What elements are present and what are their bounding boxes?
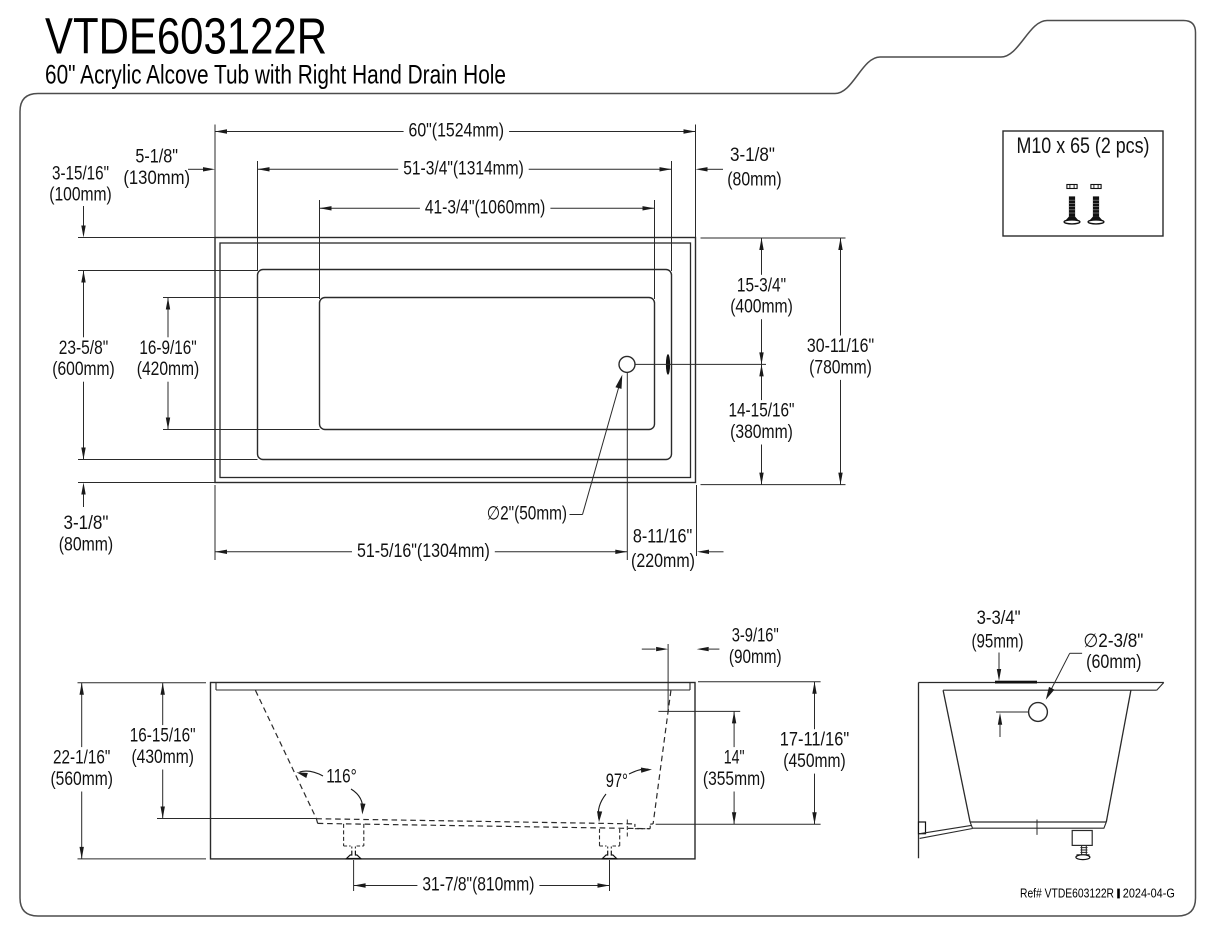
section left wall step	[316, 819, 317, 824]
bolt icon 1	[1067, 185, 1077, 189]
dim 14"(355mm)	[733, 711, 735, 824]
dim 31-7/8"(810mm)	[354, 885, 610, 887]
overflow hole mark (plan)	[666, 354, 670, 375]
svg-text:2024-04-G: 2024-04-G	[1123, 887, 1175, 901]
section floor bottom (dashed)	[318, 823, 650, 828]
ext line y=858.9 left	[78, 858, 207, 860]
svg-text:(95mm): (95mm)	[972, 632, 1024, 653]
dim 17-11/16"(450mm)	[814, 682, 816, 825]
end view tub bottom	[970, 821, 1106, 823]
svg-text:3-15/16": 3-15/16"	[52, 163, 109, 184]
dim 3-1/8"(80mm) bottom left	[81, 483, 85, 495]
svg-text:3-9/16": 3-9/16"	[732, 626, 779, 647]
overflow ext line vertical	[667, 644, 669, 711]
end view right wall	[1106, 690, 1131, 822]
ext line y=270.5 left	[78, 270, 258, 272]
svg-text:14-15/16": 14-15/16"	[729, 401, 795, 422]
svg-text:(130mm): (130mm)	[123, 168, 190, 189]
section left foot	[343, 824, 345, 846]
overflow hole circle (end view)	[1029, 703, 1048, 722]
svg-text:97°: 97°	[606, 771, 628, 792]
bolt icon 2	[1091, 185, 1101, 189]
svg-text:(600mm): (600mm)	[52, 359, 115, 380]
end view deck black bar	[995, 681, 1037, 684]
svg-text:17-11/16": 17-11/16"	[780, 730, 849, 751]
ext line y=818.5 left	[157, 818, 316, 820]
dim 5-1/8"(130mm)	[188, 168, 203, 170]
section floor top (dashed)	[316, 819, 635, 824]
dim 41-3/4"(1060mm)	[320, 207, 655, 209]
svg-text:(90mm): (90mm)	[729, 647, 782, 668]
end view left wall	[943, 690, 970, 822]
foot ext line right	[609, 860, 611, 891]
ext line y=429.5 left	[163, 429, 320, 431]
dim 22-1/16"(560mm)	[81, 683, 83, 859]
end view support rail	[920, 825, 972, 833]
svg-text:(380mm): (380mm)	[730, 422, 793, 443]
dim 51-5/16"(1304mm)	[215, 551, 627, 553]
ext line y=483 left	[78, 482, 215, 484]
section drain sump (dashed)	[634, 824, 636, 829]
ext line x=319.5	[319, 200, 321, 299]
ext line y=238 right	[701, 237, 846, 239]
ext line y=459.5 left	[78, 459, 258, 461]
plan view rim rounded rect	[258, 270, 672, 460]
svg-text:(780mm): (780mm)	[809, 357, 872, 378]
drain hole circle	[619, 356, 635, 372]
ext line x=257.5	[257, 161, 259, 271]
svg-text:(100mm): (100mm)	[49, 185, 112, 206]
svg-text:M10 x 65 (2 pcs): M10 x 65 (2 pcs)	[1017, 133, 1150, 158]
dim 23-5/8"(600mm)	[83, 271, 85, 460]
svg-text:3-1/8": 3-1/8"	[730, 145, 775, 166]
ext line y=237.5 left	[78, 237, 215, 239]
svg-text:60" Acrylic Alcove Tub with Ri: 60" Acrylic Alcove Tub with Right Hand D…	[45, 60, 506, 90]
svg-text:51-5/16"(1304mm): 51-5/16"(1304mm)	[357, 541, 490, 562]
svg-text:(400mm): (400mm)	[730, 297, 793, 318]
svg-text:16-15/16": 16-15/16"	[130, 726, 196, 747]
svg-text:5-1/8": 5-1/8"	[135, 146, 178, 167]
svg-text:41-3/4"(1060mm): 41-3/4"(1060mm)	[425, 197, 546, 218]
ext line y=484.6 right	[701, 484, 846, 486]
svg-text:22-1/16": 22-1/16"	[53, 748, 110, 769]
ext line x=671.5	[671, 161, 673, 271]
section right foot	[599, 829, 601, 846]
svg-text:∅2"(50mm): ∅2"(50mm)	[487, 504, 567, 525]
dim 14-15/16"(380mm)	[761, 364, 763, 484]
dim 16-15/16"(430mm)	[162, 683, 164, 819]
plan view tub inner offset rect	[220, 243, 691, 478]
svg-text:51-3/4"(1314mm): 51-3/4"(1314mm)	[403, 158, 524, 179]
ext line y=824.3 right	[656, 823, 821, 825]
svg-text:∅2-3/8": ∅2-3/8"	[1083, 631, 1143, 652]
svg-text:116°: 116°	[326, 767, 357, 788]
svg-text:14": 14"	[724, 748, 745, 769]
svg-text:(355mm): (355mm)	[703, 769, 765, 790]
svg-text:(430mm): (430mm)	[131, 747, 194, 768]
overflow center line	[996, 711, 1028, 713]
svg-text:15-3/4": 15-3/4"	[737, 275, 786, 296]
end view deck bottom	[943, 689, 1157, 691]
section right wall (dashed)	[653, 691, 671, 824]
ext line y=682.8 left	[78, 682, 207, 684]
ext line x=696 bottom	[696, 485, 698, 556]
svg-text:(80mm): (80mm)	[727, 170, 781, 191]
end view wall bracket	[919, 822, 926, 834]
svg-text:(420mm): (420mm)	[137, 359, 200, 380]
section outer rect	[211, 683, 696, 859]
section deck inner line	[216, 689, 690, 691]
svg-text:(560mm): (560mm)	[50, 769, 113, 790]
dim 3-1/8"(80mm) top right	[696, 167, 708, 171]
svg-text:(450mm): (450mm)	[783, 751, 845, 772]
svg-text:(80mm): (80mm)	[59, 534, 113, 555]
section drain center tick	[626, 820, 628, 839]
dim 16-9/16"(420mm)	[167, 298, 169, 430]
ext line y=297.5 left	[163, 297, 320, 299]
svg-text:23-5/8": 23-5/8"	[59, 338, 109, 359]
section left wall (dashed)	[256, 691, 317, 819]
ext line x=696	[695, 125, 697, 246]
svg-text:Ref# VTDE603122R: Ref# VTDE603122R	[1020, 887, 1114, 901]
svg-text:VTDE603122R: VTDE603122R	[45, 8, 327, 65]
end view center tick	[1036, 820, 1038, 835]
dim 51-3/4"(1314mm)	[258, 168, 672, 170]
svg-text:3-1/8": 3-1/8"	[64, 513, 109, 534]
end view skirt bottom	[970, 822, 1106, 828]
dim 60"(1524mm)	[215, 131, 696, 133]
foot ext line left	[353, 860, 355, 891]
end view wall line	[918, 683, 920, 859]
svg-text:(220mm): (220mm)	[631, 551, 695, 572]
drain center ext line	[626, 373, 628, 560]
dim 15-3/4"(400mm)	[761, 238, 763, 364]
dim 30-11/16"(780mm)	[840, 238, 842, 485]
overflow ext line horizontal	[658, 710, 740, 712]
svg-text:31-7/8"(810mm): 31-7/8"(810mm)	[422, 875, 534, 896]
drain centerline horizontal	[635, 363, 766, 365]
end view adjustable foot	[1072, 831, 1092, 846]
svg-text:3-3/4": 3-3/4"	[977, 608, 1021, 629]
svg-text:(60mm): (60mm)	[1086, 652, 1141, 673]
plan view tub outer rect	[215, 238, 696, 483]
ext line y=681.7 right	[698, 681, 821, 683]
svg-text:16-9/16": 16-9/16"	[139, 338, 196, 359]
plan view basin rounded rect	[320, 298, 655, 430]
end view deck top	[919, 682, 1164, 684]
ext line x=215	[214, 125, 216, 246]
dim 3-9/16"(90mm)	[642, 648, 656, 650]
M10 x 65 parts box	[1003, 131, 1163, 236]
svg-text:60"(1524mm): 60"(1524mm)	[409, 121, 505, 142]
ext line x=215 bottom	[214, 485, 216, 560]
svg-text:30-11/16": 30-11/16"	[807, 336, 874, 357]
ext line x=654.5	[654, 200, 656, 299]
svg-text:8-11/16": 8-11/16"	[633, 527, 692, 548]
